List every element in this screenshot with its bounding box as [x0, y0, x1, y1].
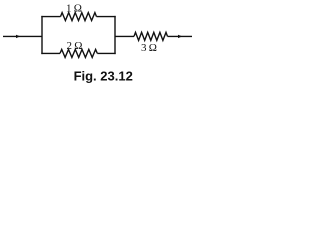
resistor R1 1Ω	[61, 13, 97, 21]
resistor R3 3Ω	[134, 32, 168, 40]
resistor R2 2Ω	[60, 49, 97, 57]
wire bottom branch right	[97, 52, 115, 54]
arrowhead right current direction	[178, 35, 182, 38]
wire top branch left	[41, 16, 60, 18]
wire top branch right	[97, 16, 116, 18]
svg-text:1 Ω: 1 Ω	[66, 2, 82, 14]
svg-text:3 Ω: 3 Ω	[141, 42, 157, 54]
arrowhead left current direction	[16, 35, 20, 38]
wire middle to R3	[115, 35, 134, 37]
wire right lead	[168, 35, 193, 37]
svg-text:Fig. 23.12: Fig. 23.12	[74, 68, 133, 83]
wire left lead	[3, 35, 42, 37]
wire bottom branch left	[41, 52, 60, 54]
svg-text:2 Ω: 2 Ω	[67, 40, 83, 52]
wire left vertical junction	[41, 16, 43, 54]
wire right vertical junction	[114, 16, 116, 54]
